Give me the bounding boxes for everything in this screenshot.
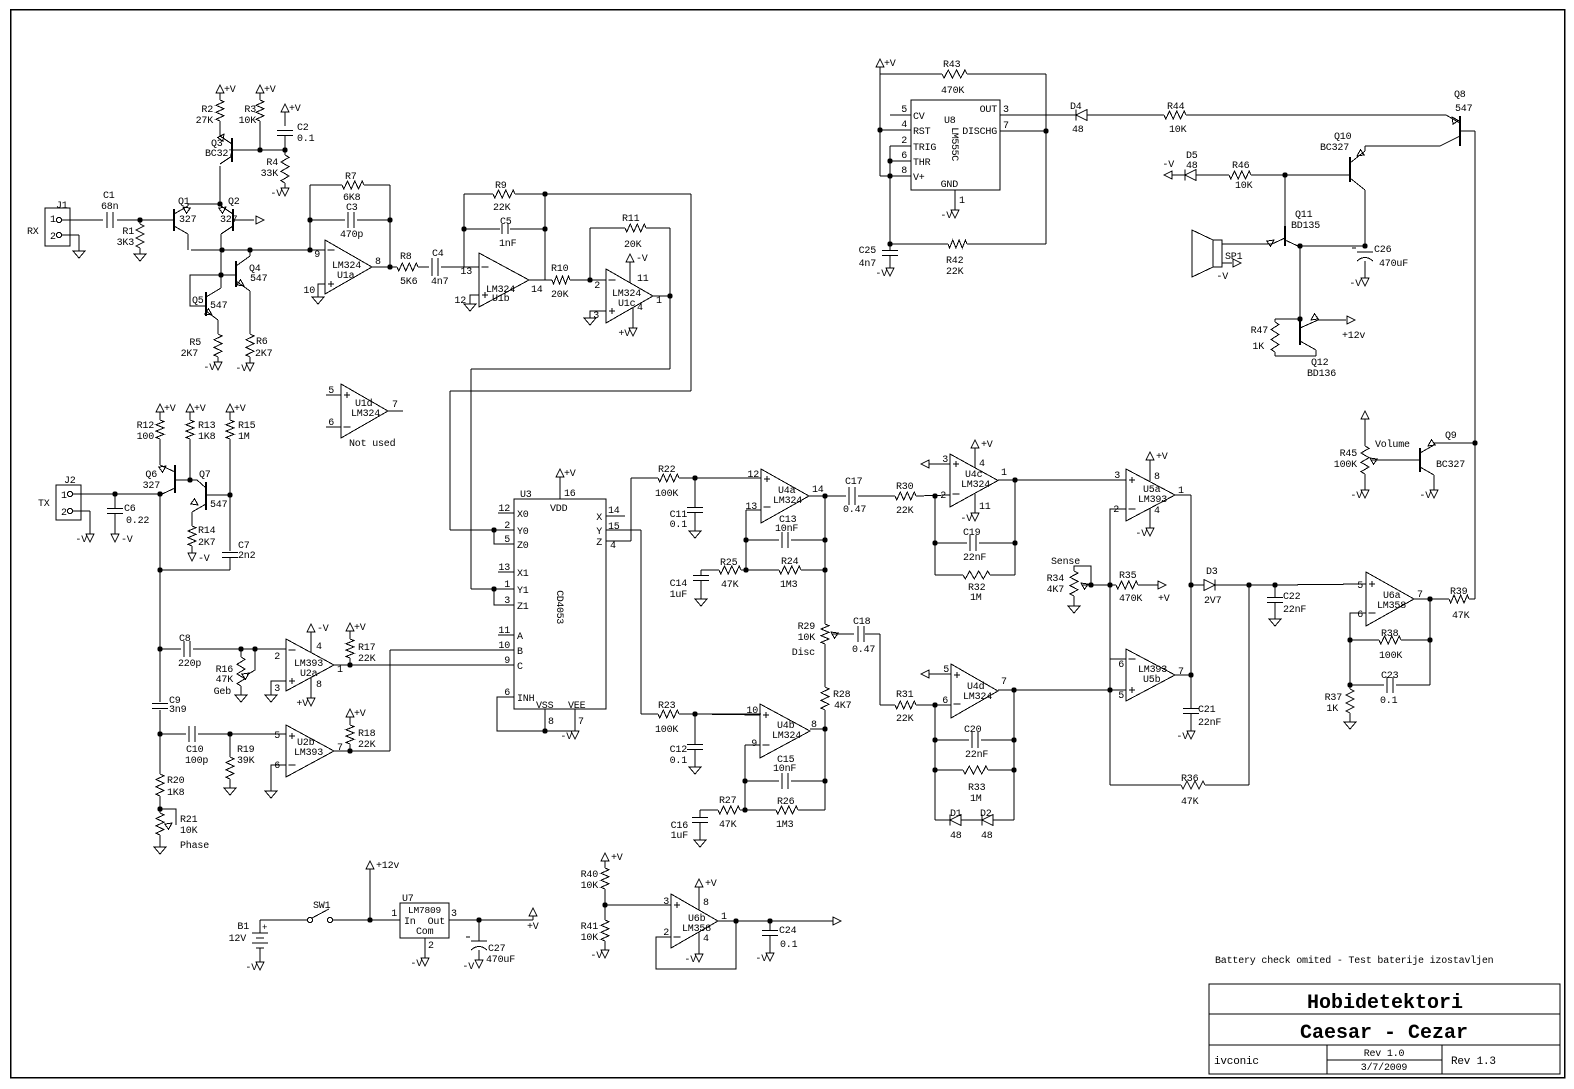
- svg-text:TX: TX: [38, 499, 50, 510]
- svg-text:U8: U8: [944, 116, 956, 127]
- svg-text:7: 7: [1003, 121, 1009, 132]
- svg-text:R20: R20: [167, 776, 185, 787]
- svg-text:100K: 100K: [1379, 651, 1402, 662]
- svg-text:1K8: 1K8: [198, 432, 216, 443]
- svg-text:Y1: Y1: [517, 586, 529, 597]
- svg-text:5: 5: [901, 105, 907, 116]
- svg-text:Q12: Q12: [1311, 358, 1329, 369]
- svg-text:BD136: BD136: [1307, 369, 1336, 380]
- svg-text:R31: R31: [896, 690, 914, 701]
- svg-text:7: 7: [578, 717, 584, 728]
- svg-text:TRIG: TRIG: [913, 143, 936, 154]
- svg-text:+V: +V: [705, 879, 717, 890]
- svg-text:-V: -V: [1135, 529, 1147, 540]
- svg-text:1: 1: [1001, 468, 1007, 479]
- svg-text:R47: R47: [1251, 326, 1269, 337]
- svg-text:9: 9: [504, 656, 510, 667]
- svg-text:68n: 68n: [101, 202, 119, 213]
- svg-text:BC327: BC327: [205, 149, 234, 160]
- svg-text:-V: -V: [203, 363, 215, 374]
- svg-text:4: 4: [637, 303, 643, 314]
- svg-text:22K: 22K: [493, 203, 511, 214]
- svg-text:1: 1: [959, 196, 965, 207]
- svg-text:22nF: 22nF: [1198, 718, 1221, 729]
- svg-text:20K: 20K: [551, 290, 569, 301]
- svg-text:R30: R30: [896, 482, 914, 493]
- svg-text:-V: -V: [1162, 160, 1174, 171]
- svg-text:0.1: 0.1: [1380, 696, 1398, 707]
- svg-text:14: 14: [531, 285, 543, 296]
- svg-text:ivconic: ivconic: [1214, 1056, 1259, 1068]
- svg-text:47K: 47K: [721, 580, 739, 591]
- svg-text:-V: -V: [198, 554, 210, 565]
- svg-text:INH: INH: [517, 694, 535, 705]
- svg-text:-V: -V: [317, 624, 329, 635]
- svg-text:-V: -V: [684, 955, 696, 966]
- svg-text:27K: 27K: [196, 116, 214, 127]
- svg-text:C1: C1: [103, 191, 115, 202]
- svg-text:+V: +V: [354, 709, 366, 720]
- svg-text:+V: +V: [564, 469, 576, 480]
- svg-text:R11: R11: [622, 214, 640, 225]
- svg-text:547: 547: [210, 301, 228, 312]
- svg-text:R4: R4: [266, 158, 278, 169]
- svg-text:D3: D3: [1206, 567, 1218, 578]
- svg-text:4K7: 4K7: [1047, 585, 1065, 596]
- svg-text:-V: -V: [462, 962, 474, 973]
- svg-text:-V: -V: [121, 535, 133, 546]
- svg-text:Q2: Q2: [228, 197, 240, 208]
- svg-text:R42: R42: [946, 256, 964, 267]
- svg-text:RX: RX: [27, 227, 39, 238]
- svg-text:LM324: LM324: [773, 496, 802, 507]
- svg-text:1uF: 1uF: [670, 590, 688, 601]
- svg-text:CD4053: CD4053: [553, 590, 564, 624]
- svg-text:47K: 47K: [1181, 797, 1199, 808]
- svg-text:A: A: [517, 632, 523, 643]
- svg-text:-V: -V: [1349, 279, 1361, 290]
- svg-text:47K: 47K: [719, 820, 737, 831]
- svg-text:1nF: 1nF: [499, 239, 517, 250]
- svg-text:5: 5: [1118, 691, 1124, 702]
- svg-text:+V: +V: [618, 329, 630, 340]
- svg-text:1: 1: [656, 296, 662, 307]
- svg-text:C12: C12: [670, 745, 688, 756]
- svg-text:10nF: 10nF: [773, 764, 796, 775]
- svg-text:15: 15: [608, 522, 620, 533]
- svg-text:4: 4: [901, 120, 907, 131]
- svg-text:Caesar - Cezar: Caesar - Cezar: [1300, 1022, 1468, 1045]
- svg-text:327: 327: [179, 215, 197, 226]
- svg-text:J1: J1: [56, 201, 68, 212]
- svg-text:1M: 1M: [238, 432, 250, 443]
- svg-text:BC327: BC327: [1320, 143, 1349, 154]
- svg-text:8: 8: [901, 166, 907, 177]
- svg-text:R36: R36: [1181, 774, 1199, 785]
- svg-text:-V: -V: [590, 951, 602, 962]
- svg-text:2: 2: [274, 652, 280, 663]
- svg-text:3: 3: [593, 311, 599, 322]
- svg-text:+V: +V: [234, 404, 246, 415]
- svg-text:R23: R23: [658, 701, 676, 712]
- svg-text:4: 4: [1154, 506, 1160, 517]
- svg-text:13: 13: [498, 563, 510, 574]
- svg-text:-V: -V: [235, 364, 247, 375]
- svg-text:Y: Y: [596, 527, 602, 538]
- svg-text:1: 1: [391, 909, 397, 920]
- svg-text:327: 327: [143, 481, 161, 492]
- svg-text:11: 11: [498, 626, 510, 637]
- svg-text:C6: C6: [124, 504, 136, 515]
- svg-text:C26: C26: [1374, 245, 1392, 256]
- svg-text:D4: D4: [1070, 102, 1082, 113]
- svg-text:THR: THR: [913, 158, 931, 169]
- svg-text:11: 11: [979, 502, 991, 513]
- svg-text:Q1: Q1: [178, 197, 190, 208]
- svg-text:R14: R14: [198, 526, 216, 537]
- svg-text:SW1: SW1: [313, 901, 331, 912]
- svg-text:4n7: 4n7: [431, 277, 449, 288]
- svg-text:1uF: 1uF: [671, 831, 689, 842]
- svg-text:1M: 1M: [970, 593, 982, 604]
- svg-text:Q7: Q7: [199, 470, 211, 481]
- svg-text:0.1: 0.1: [780, 940, 798, 951]
- svg-text:D2: D2: [980, 809, 992, 820]
- svg-text:3: 3: [1114, 471, 1120, 482]
- svg-text:10K: 10K: [798, 633, 816, 644]
- svg-text:10K: 10K: [581, 933, 599, 944]
- svg-text:R35: R35: [1119, 571, 1137, 582]
- svg-text:C18: C18: [853, 617, 871, 628]
- svg-text:RST: RST: [913, 127, 931, 138]
- svg-text:R13: R13: [198, 421, 216, 432]
- svg-text:547: 547: [210, 500, 228, 511]
- svg-text:4: 4: [703, 934, 709, 945]
- svg-text:3: 3: [1003, 105, 1009, 116]
- svg-text:0.1: 0.1: [670, 520, 688, 531]
- svg-text:2: 2: [1113, 505, 1119, 516]
- svg-text:100K: 100K: [655, 489, 678, 500]
- svg-text:LM324: LM324: [351, 409, 380, 420]
- svg-text:6: 6: [1357, 610, 1363, 621]
- svg-text:8: 8: [316, 680, 322, 691]
- svg-text:OUT: OUT: [980, 105, 998, 116]
- svg-text:48: 48: [1072, 125, 1084, 136]
- svg-text:C20: C20: [964, 725, 982, 736]
- svg-text:7: 7: [337, 743, 343, 754]
- svg-text:U3: U3: [520, 490, 532, 501]
- svg-text:5K6: 5K6: [400, 277, 418, 288]
- svg-text:-V: -V: [245, 963, 257, 974]
- svg-text:R37: R37: [1325, 693, 1343, 704]
- svg-text:+V: +V: [354, 623, 366, 634]
- svg-text:-V: -V: [410, 959, 422, 970]
- svg-text:3/7/2009: 3/7/2009: [1361, 1062, 1408, 1074]
- svg-text:J2: J2: [64, 476, 76, 487]
- svg-text:R43: R43: [943, 60, 961, 71]
- svg-text:-V: -V: [940, 211, 952, 222]
- svg-text:V+: V+: [913, 173, 925, 184]
- svg-text:U2a: U2a: [300, 669, 318, 680]
- svg-text:4: 4: [979, 459, 985, 470]
- svg-text:-V: -V: [1176, 732, 1188, 743]
- svg-text:0.47: 0.47: [843, 505, 866, 516]
- svg-text:R8: R8: [400, 252, 412, 263]
- svg-text:Q6: Q6: [145, 470, 157, 481]
- svg-text:Q5: Q5: [192, 296, 204, 307]
- svg-text:8: 8: [703, 898, 709, 909]
- svg-text:C24: C24: [779, 926, 797, 937]
- svg-text:22K: 22K: [358, 740, 376, 751]
- svg-text:10: 10: [498, 641, 510, 652]
- svg-text:33K: 33K: [261, 169, 279, 180]
- svg-text:+: +: [262, 923, 267, 933]
- svg-text:14: 14: [608, 506, 620, 517]
- svg-text:2: 2: [594, 281, 600, 292]
- svg-text:5: 5: [1357, 581, 1363, 592]
- svg-text:R17: R17: [358, 643, 376, 654]
- svg-text:VEE: VEE: [568, 701, 586, 712]
- svg-text:C21: C21: [1198, 705, 1216, 716]
- svg-text:R40: R40: [581, 870, 599, 881]
- svg-text:R9: R9: [495, 181, 507, 192]
- svg-text:13: 13: [745, 502, 757, 513]
- svg-text:C8: C8: [179, 634, 191, 645]
- svg-text:Q8: Q8: [1454, 90, 1466, 101]
- svg-text:0.1: 0.1: [670, 756, 688, 767]
- svg-text:R25: R25: [720, 558, 738, 569]
- svg-text:LM555C: LM555C: [948, 127, 959, 161]
- svg-text:22K: 22K: [946, 267, 964, 278]
- svg-text:2K7: 2K7: [181, 349, 199, 360]
- svg-text:100p: 100p: [185, 756, 208, 767]
- svg-text:U1b: U1b: [492, 293, 510, 305]
- svg-text:10K: 10K: [1235, 181, 1253, 192]
- svg-text:0.47: 0.47: [852, 645, 875, 656]
- svg-text:470K: 470K: [1119, 594, 1142, 605]
- svg-text:470uF: 470uF: [1379, 259, 1408, 270]
- svg-text:5: 5: [274, 731, 280, 742]
- svg-text:R21: R21: [180, 815, 198, 826]
- svg-text:R34: R34: [1047, 574, 1065, 585]
- svg-text:2: 2: [50, 232, 56, 243]
- svg-text:3K3: 3K3: [117, 238, 135, 249]
- svg-text:5: 5: [328, 386, 334, 397]
- svg-text:Q10: Q10: [1334, 132, 1352, 143]
- svg-text:+12v: +12v: [1342, 331, 1365, 342]
- svg-text:220p: 220p: [178, 659, 201, 670]
- svg-text:Q11: Q11: [1295, 210, 1313, 221]
- svg-text:22nF: 22nF: [965, 750, 988, 761]
- svg-text:8: 8: [1154, 472, 1160, 483]
- svg-text:In: In: [404, 917, 416, 928]
- svg-text:2: 2: [940, 491, 946, 502]
- svg-text:U5b: U5b: [1143, 674, 1161, 686]
- svg-text:C2: C2: [297, 123, 309, 134]
- svg-text:C17: C17: [845, 477, 863, 488]
- svg-text:10K: 10K: [581, 881, 599, 892]
- svg-text:R26: R26: [777, 797, 795, 808]
- svg-text:Hobidetektori: Hobidetektori: [1307, 992, 1463, 1015]
- svg-text:C3: C3: [346, 203, 358, 214]
- svg-text:Rev 1.0: Rev 1.0: [1364, 1049, 1405, 1060]
- svg-text:R45: R45: [1340, 449, 1358, 460]
- svg-text:+V: +V: [981, 440, 993, 451]
- svg-text:4n7: 4n7: [859, 259, 877, 270]
- svg-text:547: 547: [250, 274, 268, 285]
- svg-text:C25: C25: [859, 246, 877, 257]
- svg-text:+V: +V: [611, 853, 623, 864]
- svg-text:-V: -V: [755, 954, 767, 965]
- svg-text:10nF: 10nF: [775, 524, 798, 535]
- svg-text:R10: R10: [551, 264, 569, 275]
- svg-text:1K: 1K: [1326, 704, 1338, 715]
- svg-text:547: 547: [1455, 104, 1473, 115]
- svg-text:1: 1: [61, 491, 67, 502]
- svg-text:-V: -V: [875, 269, 887, 280]
- svg-text:8: 8: [375, 257, 381, 268]
- svg-text:B: B: [517, 647, 523, 658]
- svg-text:3: 3: [942, 455, 948, 466]
- svg-text:-V: -V: [1350, 491, 1362, 502]
- svg-text:100K: 100K: [655, 725, 678, 736]
- svg-text:U1a: U1a: [337, 271, 355, 282]
- svg-text:Disc: Disc: [792, 647, 815, 659]
- svg-text:2: 2: [901, 136, 907, 147]
- svg-text:100K: 100K: [1334, 460, 1357, 471]
- svg-text:10K: 10K: [1169, 125, 1187, 136]
- svg-text:1M: 1M: [970, 794, 982, 805]
- svg-text:1K: 1K: [1252, 342, 1264, 353]
- svg-text:2n2: 2n2: [238, 551, 256, 562]
- svg-text:47K: 47K: [216, 675, 234, 686]
- svg-text:R5: R5: [189, 338, 201, 349]
- svg-text:R27: R27: [719, 796, 737, 807]
- svg-text:R2: R2: [201, 105, 213, 116]
- svg-text:+V: +V: [527, 922, 539, 933]
- svg-text:-V: -V: [1216, 272, 1228, 283]
- svg-text:Rev 1.3: Rev 1.3: [1451, 1056, 1496, 1068]
- svg-text:470K: 470K: [941, 86, 964, 97]
- svg-text:+V: +V: [289, 104, 301, 115]
- svg-text:+V: +V: [194, 404, 206, 415]
- svg-text:R33: R33: [968, 783, 986, 794]
- svg-text:22K: 22K: [358, 654, 376, 665]
- svg-text:12: 12: [454, 296, 466, 307]
- svg-text:C14: C14: [670, 579, 688, 590]
- svg-text:C10: C10: [186, 745, 204, 756]
- svg-text:C5: C5: [500, 217, 512, 228]
- svg-text:R46: R46: [1232, 161, 1250, 172]
- svg-text:39K: 39K: [237, 756, 255, 767]
- svg-text:2: 2: [61, 508, 67, 519]
- svg-text:470p: 470p: [340, 230, 363, 241]
- svg-text:C4: C4: [432, 249, 444, 260]
- svg-text:LM7809: LM7809: [408, 905, 442, 916]
- svg-text:R18: R18: [358, 729, 376, 740]
- svg-text:6: 6: [942, 696, 948, 707]
- svg-text:C23: C23: [1381, 671, 1399, 682]
- svg-text:Z1: Z1: [517, 602, 529, 613]
- svg-text:-V: -V: [560, 732, 572, 743]
- svg-text:BC327: BC327: [1436, 460, 1465, 471]
- svg-text:13: 13: [460, 267, 472, 278]
- svg-text:470uF: 470uF: [486, 955, 515, 966]
- svg-text:D1: D1: [950, 809, 962, 820]
- svg-text:R3: R3: [244, 105, 256, 116]
- svg-text:10K: 10K: [239, 116, 257, 127]
- svg-text:R28: R28: [833, 690, 851, 701]
- svg-text:5: 5: [504, 535, 510, 546]
- svg-text:LM324: LM324: [963, 692, 992, 703]
- svg-text:6: 6: [1118, 660, 1124, 671]
- svg-text:Q9: Q9: [1445, 431, 1457, 442]
- svg-text:LM393: LM393: [1138, 495, 1167, 506]
- svg-text:12: 12: [498, 504, 510, 515]
- svg-text:10K: 10K: [180, 826, 198, 837]
- svg-text:Phase: Phase: [180, 840, 209, 852]
- svg-text:47K: 47K: [1452, 611, 1470, 622]
- svg-text:48: 48: [981, 831, 993, 842]
- svg-text:U7: U7: [402, 894, 414, 905]
- svg-text:0.1: 0.1: [297, 134, 315, 145]
- svg-text:X: X: [596, 513, 602, 524]
- svg-text:3: 3: [663, 897, 669, 908]
- svg-text:Com: Com: [416, 927, 434, 938]
- svg-text:2K7: 2K7: [198, 538, 216, 549]
- svg-text:R12: R12: [137, 421, 155, 432]
- svg-text:C: C: [517, 662, 523, 673]
- svg-text:1K8: 1K8: [167, 788, 185, 799]
- svg-text:9: 9: [314, 250, 320, 261]
- svg-text:16: 16: [564, 489, 576, 500]
- svg-text:-V: -V: [960, 514, 972, 525]
- svg-text:12: 12: [747, 470, 759, 481]
- svg-text:22K: 22K: [896, 506, 914, 517]
- svg-text:+V: +V: [884, 59, 896, 70]
- svg-text:BD135: BD135: [1291, 221, 1320, 232]
- svg-text:X1: X1: [517, 569, 529, 580]
- svg-text:Battery check omited - Test ba: Battery check omited - Test baterije izo…: [1215, 955, 1494, 967]
- svg-text:Not used: Not used: [349, 438, 396, 450]
- svg-text:6: 6: [328, 418, 334, 429]
- svg-text:R7: R7: [345, 172, 357, 183]
- svg-text:2V7: 2V7: [1204, 596, 1222, 607]
- svg-text:R15: R15: [238, 421, 256, 432]
- svg-text:100: 100: [137, 432, 155, 443]
- svg-text:+12v: +12v: [376, 861, 399, 872]
- svg-text:22K: 22K: [896, 714, 914, 725]
- svg-text:22nF: 22nF: [1283, 605, 1306, 616]
- svg-text:12V: 12V: [229, 934, 247, 945]
- svg-text:R24: R24: [781, 557, 799, 568]
- svg-text:6: 6: [274, 761, 280, 772]
- svg-text:48: 48: [1186, 161, 1198, 172]
- svg-text:GND: GND: [941, 180, 959, 191]
- svg-text:DISCHG: DISCHG: [962, 127, 997, 138]
- svg-text:0.22: 0.22: [126, 516, 149, 527]
- svg-text:+V: +V: [224, 85, 236, 96]
- svg-text:+V: +V: [164, 404, 176, 415]
- svg-text:+V: +V: [1158, 594, 1170, 605]
- svg-text:SP1: SP1: [1225, 252, 1243, 263]
- svg-text:48: 48: [950, 831, 962, 842]
- svg-text:+V: +V: [264, 85, 276, 96]
- svg-text:R41: R41: [581, 922, 599, 933]
- svg-text:R44: R44: [1167, 102, 1185, 113]
- svg-text:4: 4: [610, 541, 616, 552]
- svg-text:2: 2: [428, 941, 434, 952]
